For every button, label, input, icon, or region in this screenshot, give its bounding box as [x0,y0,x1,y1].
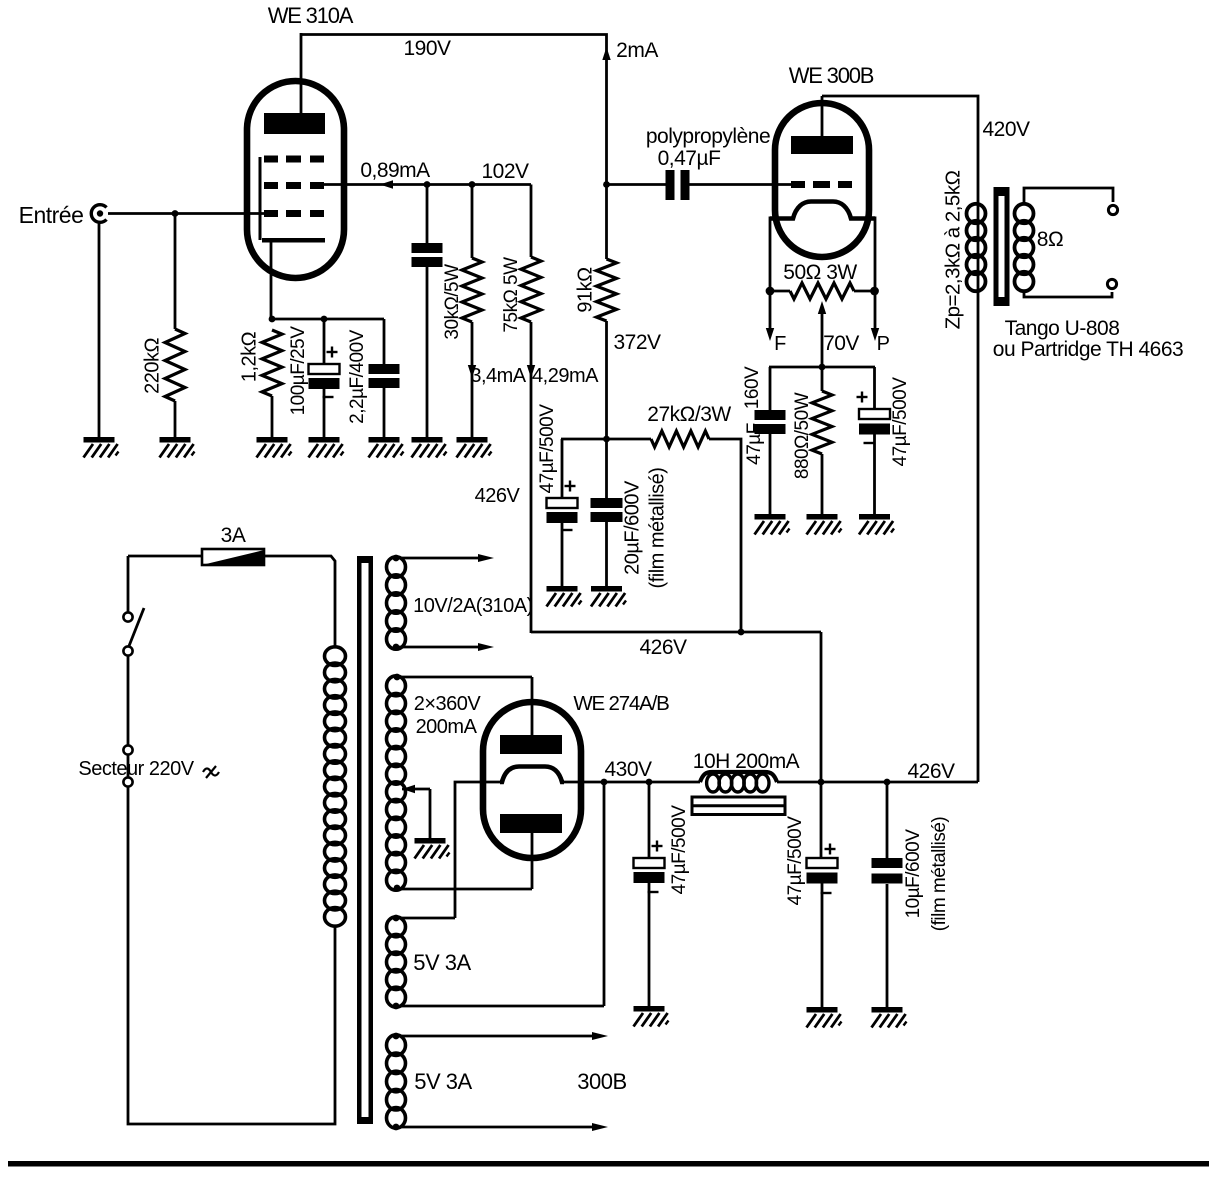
resistor R9 880/50W [821,367,824,391]
svg-text:Tango U-808: Tango U-808 [1005,317,1120,340]
svg-text:220kΩ: 220kΩ [141,338,163,394]
svg-text:200mA: 200mA [416,716,478,738]
capacitor screen bypass [426,185,429,244]
ground 10uF [872,1007,903,1013]
arrow 0,89mA left [380,180,393,188]
wire cathode rail [271,318,384,321]
node secondary terminal bottom [1107,279,1116,288]
wire HT center tap [402,785,415,793]
svg-text:(film métallisé): (film métallisé) [646,468,668,589]
node junction wiper/880 [819,364,826,371]
wire anode to 420V rail [821,96,824,140]
svg-text:100µF/25V: 100µF/25V [288,326,309,416]
transformer T1 winding 10V/2A [387,557,406,577]
resistor R4 30k/5W [471,185,474,259]
wire input to grid [108,212,266,215]
svg-text:2×360V: 2×360V [414,693,482,715]
transformer T1 winding 5V rectifier [387,917,406,937]
wire 5V rect bottom lead to 430V [396,1005,604,1008]
svg-text:426V: 426V [639,636,687,659]
node junction 430V/cap [646,779,653,786]
svg-text:372V: 372V [613,331,661,354]
svg-text:20µF/600V: 20µF/600V [621,480,643,575]
wire 10V top lead [396,557,486,560]
wire anode 1 feed [531,677,534,737]
svg-text:47µF/500V: 47µF/500V [785,816,806,906]
wire 91k branch [605,185,608,260]
svg-text:880Ω/50W: 880Ω/50W [792,392,813,479]
tube V1 anode plate [264,113,325,134]
svg-text:polypropylène: polypropylène [646,125,770,148]
node junction input/220k [172,210,179,217]
ground 20uF [591,586,622,592]
fuse 3A [128,555,202,558]
svg-text:47µF/500V: 47µF/500V [537,404,558,494]
capacitor C6 47uF 160V [769,367,772,410]
svg-text:426V: 426V [907,760,955,783]
resistor R2 1,2k [262,330,282,396]
transformer T1 core [357,556,362,1124]
transformer T2 primary winding [967,204,986,223]
svg-text:WE 310A: WE 310A [268,3,354,28]
capacitor C7 47uF/500V electrolytic [873,367,876,409]
svg-text:WE 300B: WE 300B [789,63,874,88]
tube V2 anode plate [791,136,853,154]
tube V1 WE310A envelope [247,81,344,278]
node junction 430V/5V [601,779,608,786]
tube V1 grid g2 dashes [264,182,278,189]
wire cathode down [270,242,273,320]
wire anode to top rail [300,33,303,120]
svg-text:3,4mA: 3,4mA [470,365,526,387]
wire 10V bottom lead [396,646,486,649]
svg-text:10H 200mA: 10H 200mA [693,750,800,773]
svg-text:47µF/500V: 47µF/500V [890,377,911,467]
node junction 50ohm right [870,287,879,296]
ground 47uF 160V [755,514,786,520]
wire 70V rail [769,366,875,369]
wire mains bottom return [128,787,335,1124]
resistor R8 50 ohm 3W [770,290,790,293]
node secondary terminal top [1108,205,1117,214]
page rule bottom [8,1161,1209,1167]
ground input [84,437,115,443]
svg-text:ou Partridge TH 4663: ou Partridge TH 4663 [993,338,1183,361]
ground filter2 [807,1007,838,1013]
node junction bypass cap [424,181,431,188]
svg-text:3A: 3A [221,524,246,547]
svg-text:2,2µF/400V: 2,2µF/400V [347,329,368,423]
svg-text:Zp=2,3kΩ à 2,5kΩ: Zp=2,3kΩ à 2,5kΩ [941,170,964,329]
transformer T1 HT winding 2x360V [387,676,406,696]
wire 420V top rail [822,96,978,205]
transformer T1 primary winding [325,647,346,666]
wire secondary top to terminal [1024,188,1113,205]
svg-text:0,47µF: 0,47µF [658,147,721,170]
wire filament right 430V rail [562,781,700,784]
ground screen bypass cap [412,437,443,443]
svg-text:Secteur 220V: Secteur 220V [78,758,194,780]
wire filament left to 5V winding [455,782,500,918]
ground 47uF [547,586,578,592]
inductor L1 choke 10H [700,772,777,782]
svg-text:10µF/600V: 10µF/600V [903,829,924,919]
wire 5V rect top lead [396,917,455,920]
svg-text:91kΩ: 91kΩ [574,267,596,313]
node junction cathode/1.2k [269,316,276,323]
wire 5V 300B bottom lead [396,1126,601,1129]
arrow 3,4mA down [468,365,476,378]
svg-text:70V: 70V [823,332,859,355]
svg-text:27kΩ/3W: 27kΩ/3W [647,403,731,426]
inductor L1 core [692,797,785,815]
ground filter1 [634,1006,665,1012]
tube V1 g3-cathode strap [259,157,262,240]
resistor R6 91k [597,259,617,321]
tube V3 anode 2 plate [500,814,562,833]
tube V2 WE300B envelope [775,103,869,257]
svg-text:300B: 300B [577,1069,626,1094]
svg-text:8Ω: 8Ω [1037,228,1063,251]
tube V3 filament [500,767,564,783]
wire wiper to 70V rail [821,310,824,367]
wire P lead arrow [874,291,877,330]
tube V1 cathode [262,238,325,243]
transformer T2 core [994,187,999,306]
label AC sine [203,769,219,776]
svg-text:102V: 102V [481,160,529,183]
node junction 30k [469,181,476,188]
ground 2.2uF [369,437,400,443]
wire primary feed [977,205,980,782]
svg-text:190V: 190V [403,37,451,60]
arrow 4,29mA down [527,365,535,378]
wire HT top to rectifier anode [397,676,532,679]
capacitor C2 2,2uF/400V [383,319,386,364]
transformer T2 secondary winding [1015,204,1034,223]
wire HT bottom to rectifier anode [397,888,532,891]
node junction 426V/10uF [884,779,891,786]
wire anode 2 feed [531,831,534,889]
arrow 2mA up [602,47,610,60]
ground 220k [160,437,191,443]
wire 27k to 426V rail [709,439,741,633]
wire 426V rail to OPT [777,781,978,784]
svg-text:F: F [774,333,786,355]
ground 880 [807,514,838,520]
capacitor C9 47uF/500V filter2 [820,782,823,858]
node mains terminal lower [123,777,132,786]
capacitor C4 20uF/600V film [591,498,623,508]
svg-text:2mA: 2mA [616,39,658,62]
svg-text:4,29mA: 4,29mA [532,365,599,387]
svg-text:47µF: 47µF [744,423,765,465]
wire F lead arrow [769,291,772,330]
tube V1 grid g1 dashes [264,210,278,217]
wire 426V riser from box [820,632,823,782]
wire 190V top rail [301,35,607,185]
node junction 50ohm left [766,287,775,296]
node junction 100uF [321,316,328,323]
svg-text:430V: 430V [604,758,652,781]
svg-text:10V/2A(310A): 10V/2A(310A) [413,595,533,617]
svg-text:75kΩ 5W: 75kΩ 5W [501,257,522,333]
resistor R5 75k 5W [530,185,533,258]
capacitor C10 10uF/600V film [886,782,889,858]
resistor R7 27k/3W [651,431,709,447]
svg-text:50Ω 3W: 50Ω 3W [783,261,857,284]
node junction 372V/91k [603,436,610,443]
switch S1 mains [127,556,130,612]
tube V3 anode 1 plate [500,735,562,754]
wire input jack to ground [98,221,101,438]
svg-text:5V 3A: 5V 3A [414,1069,472,1094]
tube V2 grid dashes [791,181,805,188]
ground 47uF/500V [859,514,890,520]
svg-text:30kΩ/5W: 30kΩ/5W [442,264,463,340]
tube V3 WE274A/B envelope [483,702,581,858]
svg-text:P: P [877,333,890,355]
ground 100uF [309,437,340,443]
svg-text:1,2kΩ: 1,2kΩ [238,331,260,382]
svg-text:426V: 426V [475,485,521,507]
capacitor C1 100uF/25V electrolytic [323,319,326,364]
resistor R1 220k [174,214,177,330]
capacitor C8 47uF/500V filter [648,782,651,858]
tube V2 filament [770,202,875,219]
ground HT center tap [415,838,446,844]
wire filament box right [874,217,877,292]
svg-text:420V: 420V [982,118,1030,141]
capacitor C5 0,47uF polypropylene [607,183,667,186]
capacitor C3 47uF/500V electrolytic [561,439,564,498]
wire 426V bottom rail [531,631,821,634]
svg-text:47µF/500V: 47µF/500V [669,805,690,895]
node junction 27k/426V [738,629,745,636]
ground 30k [457,437,488,443]
wire secondary bottom to terminal [1024,290,1112,297]
transformer T1 winding 5V 300B [387,1035,406,1056]
svg-text:160V: 160V [742,366,763,409]
svg-text:WE 274A/B: WE 274A/B [573,692,669,715]
node mains terminal upper [123,745,132,754]
svg-text:0,89mA: 0,89mA [360,159,430,182]
tube V1 grid g3 dashes [264,156,278,163]
wire screen grid rail 102V [322,183,531,186]
node input jack Entrée [91,205,106,223]
wire 372V rail [561,438,651,441]
node junction coupling cap [603,181,610,188]
wire filament box left [769,217,772,292]
wire 5V 300B top lead [396,1035,601,1038]
svg-text:(film métallisé): (film métallisé) [929,817,950,932]
ground 1.2k [257,437,288,443]
wire fuse to transformer [264,556,335,648]
svg-text:5V 3A: 5V 3A [413,950,471,975]
svg-text:Entrée: Entrée [19,202,84,228]
node junction 426V/box [818,779,825,786]
